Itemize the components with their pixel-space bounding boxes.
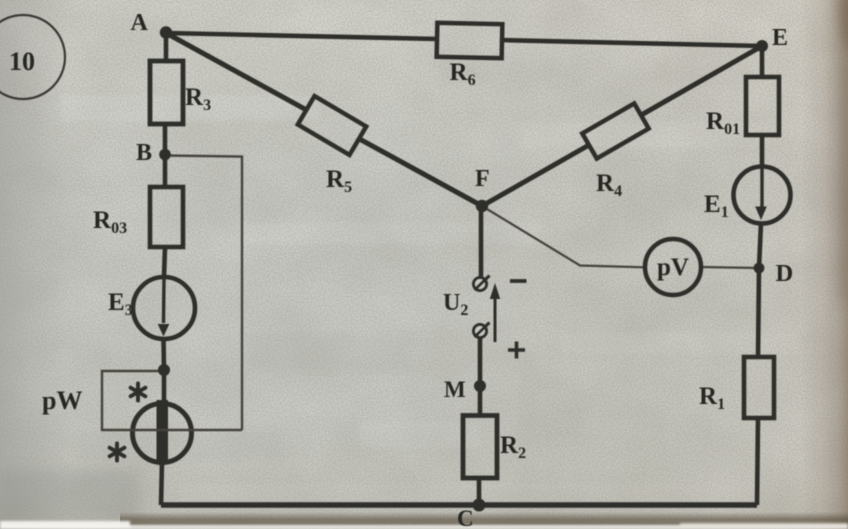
svg-text:A: A bbox=[131, 10, 149, 36]
svg-text:10: 10 bbox=[9, 47, 35, 76]
svg-text:D: D bbox=[776, 260, 794, 287]
svg-text:M: M bbox=[444, 377, 466, 402]
svg-text:E: E bbox=[772, 25, 788, 51]
svg-text:pV: pV bbox=[657, 254, 689, 281]
svg-text:F: F bbox=[475, 166, 490, 192]
svg-text:pW: pW bbox=[42, 386, 82, 415]
svg-text:B: B bbox=[136, 140, 152, 166]
svg-text:C: C bbox=[457, 506, 474, 529]
